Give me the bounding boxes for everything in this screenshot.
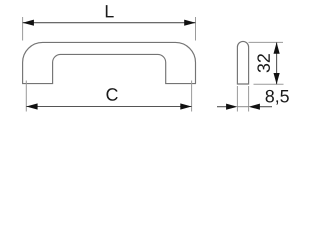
L left arrowhead [23, 20, 34, 26]
left foot bottom edge [22, 83, 53, 85]
label 8,5 [266, 90, 289, 105]
dimension line 8,5 between extensions [237, 106, 248, 108]
dimension line 32 [276, 42, 278, 84]
dimension line L [23, 22, 196, 24]
C extension line left [25, 81, 27, 112]
8,5 extension line right [248, 86, 250, 112]
C extension line right [191, 81, 193, 112]
handle inner contour (front view) [53, 54, 166, 83]
side profile contour [237, 41, 248, 84]
8,5 extension line left [236, 86, 238, 112]
8,5 right arrowhead (pointing left) [249, 104, 260, 110]
right foot bottom edge [165, 83, 196, 85]
L extension line right [195, 17, 197, 41]
32 top arrowhead [274, 42, 280, 53]
label L [106, 5, 114, 17]
32 bottom arrowhead [274, 73, 280, 84]
label C [106, 88, 117, 101]
L right arrowhead [184, 20, 195, 26]
C left arrowhead [26, 103, 37, 109]
label 32 (rotated) [257, 54, 270, 72]
dimension line C [26, 106, 191, 108]
C right arrowhead [180, 103, 191, 109]
32 extension line top [249, 41, 284, 43]
handle outer contour (front view) [23, 42, 196, 83]
L extension line left [22, 17, 24, 41]
8,5 right arrow tail [258, 106, 272, 108]
8,5 left arrowhead (pointing right) [226, 104, 237, 110]
32 extension line bottom [254, 83, 284, 85]
8,5 left arrow tail [217, 106, 228, 108]
